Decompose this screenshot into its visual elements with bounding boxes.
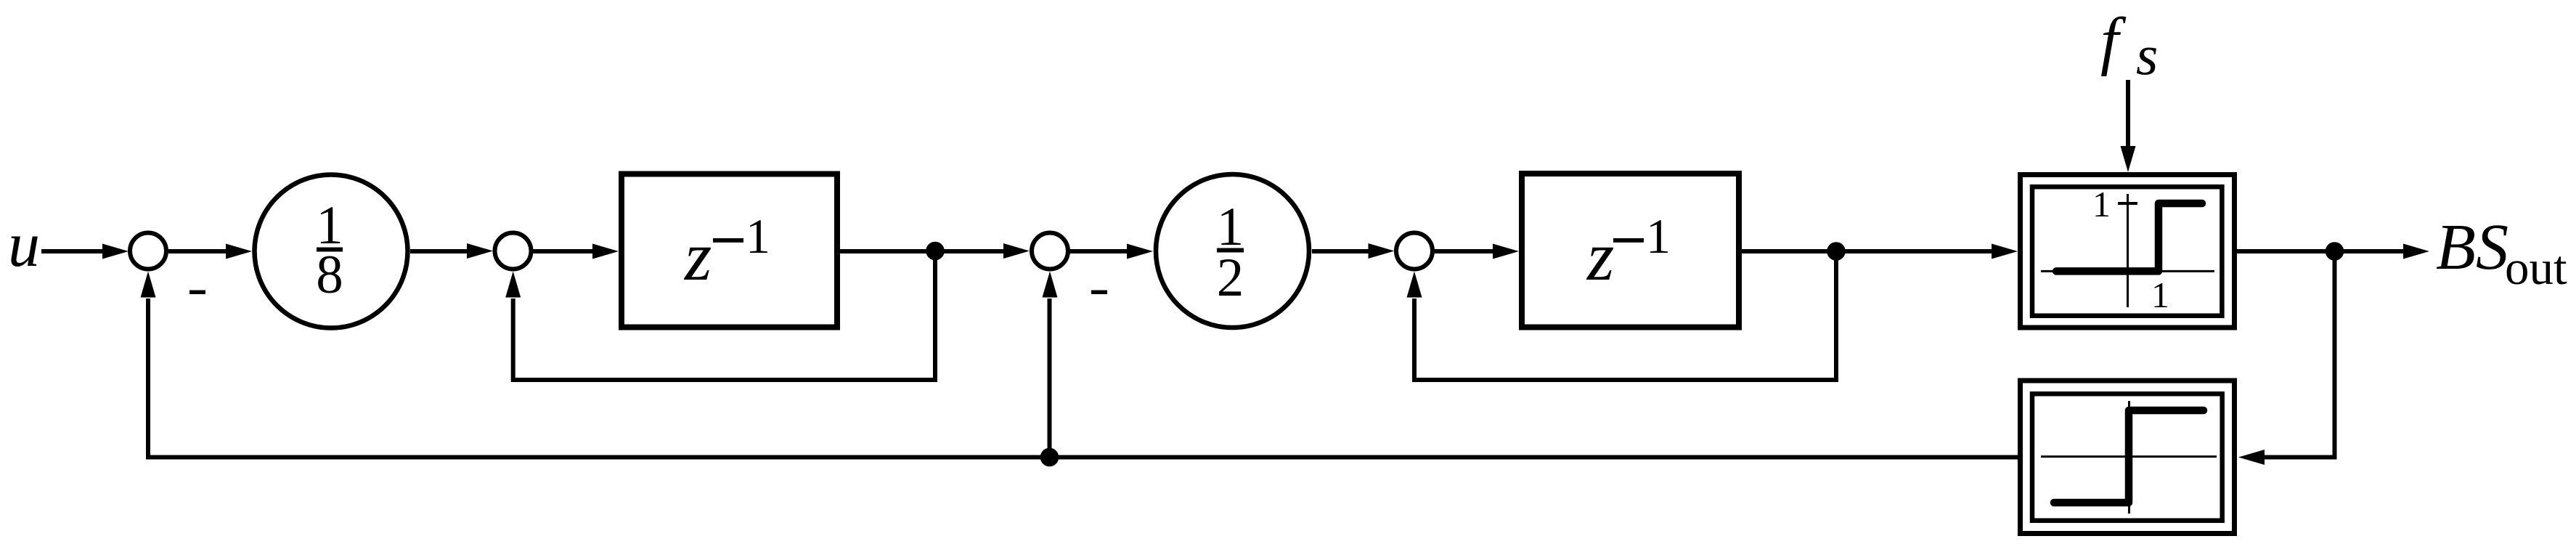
svg-text:s: s [2136,23,2158,86]
summing junction S3 [1032,233,1068,269]
DAC D1 x axis [2041,455,2217,458]
node N2 junction dot [1827,242,1846,261]
DAC D1 y axis [2128,401,2130,514]
wire Z1 to summer S3 [840,243,1030,259]
svg-text:8: 8 [316,245,343,305]
quantizer Q1 tick level one [2118,202,2137,205]
summing junction S2 [495,233,531,269]
svg-text:1: 1 [746,208,770,264]
DAC D1 outer box [2021,381,2235,534]
node N1 junction dot [926,242,945,261]
quantizer Q1 step curve [2056,203,2202,271]
delay block Z1 [621,174,837,328]
wire feedback loop N2 to S4 [1407,251,1837,380]
DAC D1 step curve [2054,410,2204,503]
quantizer Q1 outer box [2021,175,2235,328]
svg-text:BS: BS [2436,211,2508,283]
quantizer Q1 y axis [2127,194,2129,307]
svg-text:1: 1 [2151,275,2169,315]
wire feedback N3 to DAC [2238,251,2335,465]
wire gain 1/8 to summer S2 [410,243,493,259]
svg-text:2: 2 [1217,248,1244,308]
svg-text:f: f [2100,5,2127,77]
node N4 junction dot [1040,448,1059,467]
svg-text:z: z [683,217,712,295]
minus sign at S3 [1091,291,1107,295]
DAC D1 inner box [2032,394,2222,521]
summing junction S4 [1396,233,1432,269]
wire quantizer to output BSout [2237,244,2429,259]
node BSout output label [2436,211,2567,295]
wire S1 to gain 1/8 [168,244,252,259]
wire feedback N4 to S3 [1043,272,1058,458]
wire Z2 to quantizer [1742,244,2018,259]
svg-text:1: 1 [1646,208,1671,264]
wire S4 to delay block Z2 [1435,244,1519,259]
svg-text:u: u [8,210,40,280]
gain block 1/2 [1156,174,1309,328]
node fs clock label [2100,5,2158,86]
minus sign at S1 [189,291,205,295]
svg-text:1: 1 [2092,184,2111,224]
node N3 junction dot [2326,242,2344,261]
summing junction S1 [130,233,166,269]
wire feedback loop N1 to S2 [505,251,935,381]
wire DAC feedback to S1 [141,272,2018,458]
wire gain 1/2 to summer S4 [1312,243,1395,259]
delay block Z2 [1522,174,1739,328]
gain block 1/8 [255,175,408,328]
svg-text:z: z [1586,217,1614,295]
wire u to summer S1 [41,244,129,259]
wire S2 to delay block Z1 [534,244,619,259]
quantizer Q1 inner box [2032,187,2222,316]
svg-text:out: out [2505,241,2567,295]
quantizer Q1 x axis [2041,270,2214,272]
node u input label [8,210,40,280]
wire fs to quantizer [2121,80,2136,172]
wire S3 to gain 1/2 [1070,244,1154,259]
